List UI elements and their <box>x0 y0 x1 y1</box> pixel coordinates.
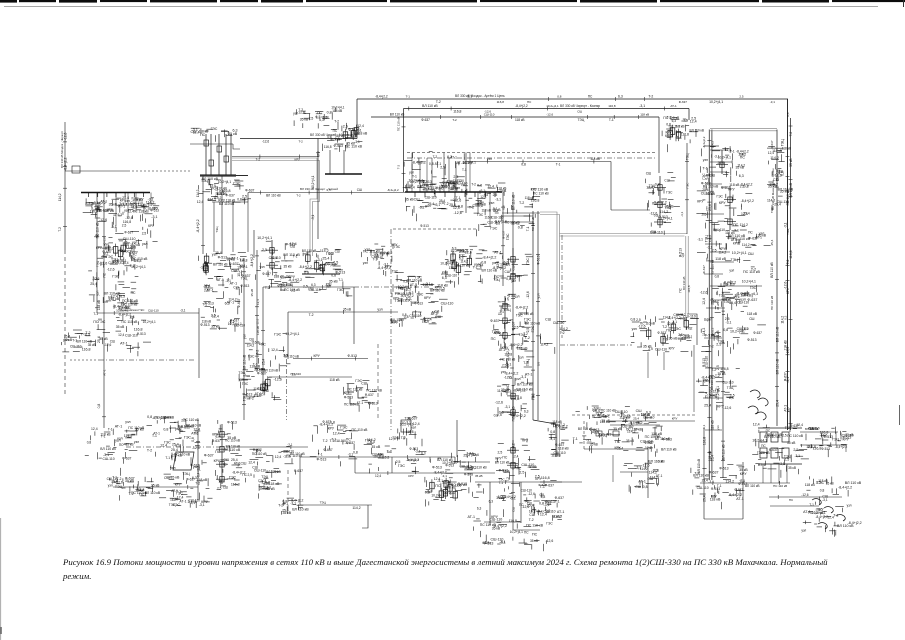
svg-text:116,8: 116,8 <box>82 347 91 351</box>
svg-text:АТ-1: АТ-1 <box>441 272 448 276</box>
svg-text:СШ-110: СШ-110 <box>673 313 685 317</box>
scan artifact: top edge black strip <box>0 0 905 3</box>
svg-text:ПС 110 кВ: ПС 110 кВ <box>773 484 787 488</box>
wire dashdot 158 <box>407 157 656 159</box>
svg-text:СШ-110: СШ-110 <box>453 179 465 183</box>
wire 377 <box>269 376 352 378</box>
svg-text:КРУ: КРУ <box>112 259 119 263</box>
svg-text:ГЭС: ГЭС <box>164 440 171 444</box>
svg-text:-12,6: -12,6 <box>256 318 260 325</box>
svg-text:-3,1: -3,1 <box>311 214 315 220</box>
svg-text:T-1: T-1 <box>809 503 814 507</box>
wire 421 <box>610 420 695 422</box>
wire F-513 dashed <box>393 228 477 230</box>
wire drop x97 <box>96 193 98 314</box>
svg-text:СШ-110: СШ-110 <box>521 488 533 492</box>
svg-text:116,8: 116,8 <box>134 327 143 331</box>
svg-text:-8,4+j2,2: -8,4+j2,2 <box>515 305 528 309</box>
svg-text:СШ: СШ <box>414 198 420 202</box>
svg-text:ГЭС: ГЭС <box>526 258 530 265</box>
svg-text:-3,1: -3,1 <box>287 443 293 447</box>
svg-text:Ф-637: Ф-637 <box>783 372 787 381</box>
svg-text:ВЛ 110 кВ: ВЛ 110 кВ <box>770 262 774 278</box>
svg-text:ТЭЦ: ТЭЦ <box>526 359 530 367</box>
svg-text:АТ-1: АТ-1 <box>103 369 107 376</box>
svg-text:Ф-637: Ф-637 <box>262 272 271 276</box>
svg-text:118 кВ: 118 кВ <box>716 331 720 341</box>
svg-text:-12,6: -12,6 <box>526 291 530 298</box>
svg-text:10,2+j4,1: 10,2+j4,1 <box>218 180 231 184</box>
svg-text:Ф-637: Ф-637 <box>323 448 332 452</box>
svg-text:-12,6: -12,6 <box>783 281 787 289</box>
svg-text:T-1: T-1 <box>152 434 157 438</box>
svg-text:T-1: T-1 <box>202 302 207 306</box>
wire drop artem4 <box>786 464 788 483</box>
svg-text:6,3: 6,3 <box>524 409 529 413</box>
svg-text:25,4: 25,4 <box>595 412 602 416</box>
svg-text:Ф-637: Ф-637 <box>734 488 743 492</box>
wire riser at x357 <box>356 99 358 139</box>
svg-text:ТЭЦ: ТЭЦ <box>600 434 607 438</box>
svg-text:ВЛ 330 кВ Моздок - Артём 1 Цеп: ВЛ 330 кВ Моздок - Артём 1 Цепь <box>455 94 505 98</box>
svg-text:118 кВ: 118 кВ <box>482 209 492 213</box>
svg-text:10,2+j4,1: 10,2+j4,1 <box>732 251 747 255</box>
svg-text:Ф-637: Ф-637 <box>702 265 706 274</box>
svg-text:СШ-110: СШ-110 <box>425 196 437 200</box>
Kizlyar boxes <box>646 318 688 346</box>
svg-text:ГЭС: ГЭС <box>686 182 690 189</box>
svg-text:ПС: ПС <box>242 473 247 477</box>
svg-text:T-2: T-2 <box>195 482 200 486</box>
svg-text:ПС 110 кВ: ПС 110 кВ <box>601 409 616 413</box>
svg-text:T-2: T-2 <box>323 439 328 443</box>
svg-text:ТЭЦ: ТЭЦ <box>115 485 123 489</box>
wire 425 <box>610 424 660 426</box>
cluster C labels labels <box>299 249 346 277</box>
svg-text:12,4: 12,4 <box>128 245 135 249</box>
svg-text:АТ-1: АТ-1 <box>115 425 123 429</box>
svg-text:СШ: СШ <box>241 462 247 466</box>
svg-text:10,2+j4,1: 10,2+j4,1 <box>237 263 241 276</box>
wire 497 <box>769 496 842 498</box>
feeder chain x272 <box>266 240 278 270</box>
svg-text:ГЭС: ГЭС <box>274 332 282 336</box>
svg-text:114,2: 114,2 <box>352 506 360 510</box>
svg-text:0,8: 0,8 <box>163 427 168 431</box>
svg-text:ПС 110 кВ: ПС 110 кВ <box>787 434 804 438</box>
svg-text:ПС: ПС <box>103 272 107 277</box>
wire 445 <box>800 444 846 446</box>
svg-text:6,3: 6,3 <box>409 291 414 295</box>
chain x513 d <box>507 440 519 470</box>
svg-text:12,4: 12,4 <box>275 455 282 459</box>
svg-text:ПС: ПС <box>532 533 538 537</box>
svg-text:0,8: 0,8 <box>454 188 459 192</box>
svg-text:ВЛ 110 кВ: ВЛ 110 кВ <box>845 481 862 485</box>
svg-text:СШ-110: СШ-110 <box>489 517 502 521</box>
svg-text:2,5: 2,5 <box>519 471 524 475</box>
svg-text:ТЭЦ: ТЭЦ <box>378 453 385 457</box>
inside right border labels labels <box>767 146 794 210</box>
svg-text:ПС: ПС <box>761 444 766 448</box>
svg-text:узл: узл <box>474 263 480 267</box>
svg-text:ПС: ПС <box>461 183 466 187</box>
wire 432 <box>800 431 838 433</box>
svg-text:116,8: 116,8 <box>136 488 144 492</box>
svg-text:СШ-110: СШ-110 <box>148 309 159 313</box>
svg-text:АТ-1: АТ-1 <box>783 405 787 412</box>
svg-text:ПС: ПС <box>314 260 319 264</box>
svg-text:ГЭС: ГЭС <box>506 384 510 391</box>
svg-text:118 кВ: 118 кВ <box>805 483 816 487</box>
svg-text:ВЛ 110 кВ: ВЛ 110 кВ <box>578 427 593 431</box>
svg-text:118 кВ: 118 кВ <box>711 420 715 430</box>
wire x257 <box>256 250 258 372</box>
svg-text:118 кВ: 118 кВ <box>332 109 343 113</box>
svg-text:-12,6: -12,6 <box>700 290 708 294</box>
svg-text:узл: узл <box>243 334 247 339</box>
svg-text:118 кВ: 118 кВ <box>329 378 340 382</box>
svg-text:2,5: 2,5 <box>498 451 503 455</box>
svg-text:СШ: СШ <box>512 507 516 512</box>
svg-text:T-1: T-1 <box>93 312 98 316</box>
svg-text:ТЭЦ: ТЭЦ <box>238 371 246 375</box>
svg-text:T-1: T-1 <box>284 502 289 506</box>
rung 398 <box>703 397 723 399</box>
svg-text:-12,6: -12,6 <box>200 266 208 270</box>
svg-text:-8,4+j2,2: -8,4+j2,2 <box>741 199 754 203</box>
svg-text:ТЭЦ: ТЭЦ <box>320 501 327 505</box>
svg-text:35 кВ: 35 кВ <box>346 142 355 146</box>
svg-text:-8,4+j2,2: -8,4+j2,2 <box>515 104 528 108</box>
wire dash 360a <box>70 359 99 361</box>
svg-text:6,3: 6,3 <box>421 452 426 456</box>
svg-text:T-1: T-1 <box>663 338 668 342</box>
svg-text:-3,1: -3,1 <box>180 309 186 313</box>
wire drop x470 <box>469 153 471 193</box>
svg-text:116,8: 116,8 <box>720 367 728 371</box>
wire dashed x288b <box>287 470 289 510</box>
svg-text:Ф-513: Ф-513 <box>420 224 429 228</box>
svg-text:СШ: СШ <box>647 477 653 481</box>
svg-text:-3,1: -3,1 <box>492 207 498 211</box>
svg-text:ГЭС: ГЭС <box>770 207 774 214</box>
svg-text:-3,1: -3,1 <box>151 215 157 219</box>
chain x222 <box>216 424 228 484</box>
wire drop x116 <box>115 193 117 227</box>
svg-text:СШ: СШ <box>280 288 285 292</box>
svg-text:118 кВ: 118 кВ <box>335 134 345 138</box>
svg-text:ПС: ПС <box>733 223 739 227</box>
svg-text:ВЛ 110 кВ: ВЛ 110 кВ <box>776 358 780 374</box>
svg-text:-8,4+j2,2: -8,4+j2,2 <box>835 445 848 449</box>
svg-text:-3,1: -3,1 <box>822 498 828 502</box>
svg-text:узл: узл <box>707 317 712 321</box>
svg-text:ГЭС: ГЭС <box>477 213 484 217</box>
chain x660 <box>654 176 666 228</box>
svg-text:35 кВ: 35 кВ <box>405 197 414 201</box>
wire drop x659 <box>658 117 660 173</box>
svg-text:10,2+j4,1: 10,2+j4,1 <box>143 320 156 324</box>
svg-text:ГЭС: ГЭС <box>506 233 510 240</box>
svg-text:10,2+j4,1: 10,2+j4,1 <box>658 216 673 220</box>
wire stub 300r <box>710 299 731 301</box>
chain x222 labels labels <box>212 420 246 490</box>
svg-text:T-1: T-1 <box>373 258 378 262</box>
svg-text:-3,1: -3,1 <box>770 100 776 104</box>
svg-text:25,4: 25,4 <box>705 392 709 398</box>
midleft band B labels <box>303 277 352 297</box>
wire grey 234 <box>560 233 688 235</box>
svg-text:узл: узл <box>537 293 541 298</box>
svg-text:-8,4+j2,2: -8,4+j2,2 <box>64 157 68 170</box>
svg-text:116,8: 116,8 <box>231 483 240 487</box>
svg-text:КРУ: КРУ <box>435 286 442 290</box>
rung 214 <box>703 213 724 215</box>
svg-text:116,8: 116,8 <box>485 216 493 220</box>
svg-text:35 кВ: 35 кВ <box>227 436 237 440</box>
svg-text:СШ-110: СШ-110 <box>521 463 534 467</box>
svg-text:114,2: 114,2 <box>320 249 329 253</box>
svg-text:узл: узл <box>425 204 431 208</box>
svg-text:ПС: ПС <box>666 328 672 332</box>
svg-text:Ф-513: Ф-513 <box>719 467 728 471</box>
svg-text:6,3: 6,3 <box>739 174 744 178</box>
wire right border outer <box>787 99 789 430</box>
svg-text:ГЭС: ГЭС <box>666 190 673 194</box>
svg-text:35 кВ: 35 кВ <box>788 466 796 470</box>
svg-text:2,5: 2,5 <box>716 365 720 370</box>
box on 171 <box>72 166 80 173</box>
svg-text:ГЭС: ГЭС <box>531 325 535 332</box>
svg-text:T-1: T-1 <box>730 149 735 153</box>
wire 213 <box>502 212 540 214</box>
rung 368 <box>705 367 724 369</box>
svg-text:114,2: 114,2 <box>725 480 734 484</box>
svg-text:узл: узл <box>96 291 100 296</box>
svg-text:Рисунок 16.9 Потоки мощности и: Рисунок 16.9 Потоки мощности и уровни на… <box>62 557 828 567</box>
svg-text:ПС 110 кВ: ПС 110 кВ <box>347 388 362 392</box>
svg-text:116,8: 116,8 <box>687 285 691 293</box>
svg-text:0,8: 0,8 <box>643 485 648 489</box>
chain x513 b <box>499 296 511 340</box>
rung 430 <box>705 429 722 431</box>
svg-text:узл: узл <box>377 308 382 312</box>
svg-text:25,4: 25,4 <box>506 294 510 300</box>
svg-text:T-2: T-2 <box>519 201 524 205</box>
wire x648 <box>647 449 649 498</box>
svg-text:0,8: 0,8 <box>458 205 463 209</box>
svg-text:2,5: 2,5 <box>702 212 707 216</box>
svg-text:ТЭЦ: ТЭЦ <box>780 139 784 147</box>
svg-text:118 кВ: 118 кВ <box>747 312 758 316</box>
left bottom rows labels <box>107 475 161 500</box>
svg-text:ТЭЦ: ТЭЦ <box>578 118 585 122</box>
svg-text:узл: узл <box>703 158 708 162</box>
right chain 3 labels labels <box>697 237 760 311</box>
svg-text:Ф-637: Ф-637 <box>709 471 719 475</box>
svg-text:T-1: T-1 <box>338 278 343 282</box>
midleft low labels2 labels <box>245 332 300 372</box>
svg-text:ГЭС: ГЭС <box>242 382 249 386</box>
wire 505 <box>300 504 372 506</box>
svg-text:25,4: 25,4 <box>231 458 238 462</box>
svg-text:КРУ: КРУ <box>843 438 850 442</box>
svg-text:6,3: 6,3 <box>477 507 482 511</box>
svg-text:ГЭС: ГЭС <box>674 327 682 331</box>
Chirkey labels labels <box>191 127 238 142</box>
svg-text:-3,1: -3,1 <box>504 262 510 266</box>
svg-text:T-2: T-2 <box>525 336 530 340</box>
svg-text:ГЭС: ГЭС <box>750 286 757 290</box>
svg-text:ТЭЦ: ТЭЦ <box>396 286 404 290</box>
svg-text:СШ: СШ <box>435 315 441 319</box>
rung 308 <box>706 307 725 309</box>
svg-text:T-2: T-2 <box>751 268 756 272</box>
svg-text:узл: узл <box>134 440 139 444</box>
svg-text:0,8: 0,8 <box>521 162 526 166</box>
midleft band C labels <box>361 243 403 276</box>
svg-text:T-2: T-2 <box>401 436 406 440</box>
wire 330kV grey tie A2 <box>232 161 320 257</box>
svg-text:ПС: ПС <box>636 421 642 425</box>
svg-text:ПС: ПС <box>491 337 497 341</box>
svg-text:ПС 110 кВ: ПС 110 кВ <box>223 448 240 452</box>
svg-text:12,4: 12,4 <box>290 242 297 246</box>
svg-text:118 кВ: 118 кВ <box>274 275 285 279</box>
svg-text:СШ-110: СШ-110 <box>640 440 653 444</box>
chain x513 a <box>507 248 519 282</box>
svg-text:ПС: ПС <box>524 531 529 535</box>
wire drop x128 <box>127 193 129 219</box>
Chiryurt labels below labels <box>405 196 501 222</box>
cluster E labels labels <box>440 246 497 287</box>
svg-text:Ф-513: Ф-513 <box>537 255 541 264</box>
svg-text:0,8: 0,8 <box>786 112 790 117</box>
izberbash labels labels <box>573 406 608 453</box>
scan artifact: left page edge <box>0 518 2 640</box>
svg-text:ПС 110 кВ: ПС 110 кВ <box>96 222 100 239</box>
chain labels a labels <box>492 250 533 283</box>
svg-text:КРУ: КРУ <box>385 264 392 268</box>
chain mid labels labels <box>499 342 534 386</box>
wire grey tie B <box>540 212 557 457</box>
svg-text:узл: узл <box>705 206 709 211</box>
svg-text:ВЛ 110 кВ: ВЛ 110 кВ <box>745 484 760 488</box>
wire jog <box>247 193 249 203</box>
svg-text:ВЛ 330 кВ: ВЛ 330 кВ <box>682 277 686 290</box>
svg-text:СШ: СШ <box>223 486 228 490</box>
svg-text:СШ-110: СШ-110 <box>441 301 454 305</box>
scan artifact: top-right corner tick <box>903 0 905 7</box>
wire 171 <box>65 170 128 172</box>
left labels 300 labels <box>103 294 138 310</box>
svg-text:2,5: 2,5 <box>740 184 745 188</box>
svg-text:Ф-637: Ф-637 <box>769 448 778 452</box>
svg-text:КРУ: КРУ <box>441 186 448 190</box>
svg-text:35 кВ: 35 кВ <box>250 289 254 296</box>
svg-text:Ф-637: Ф-637 <box>512 321 516 330</box>
wire Makhachkala 330 trunk <box>708 130 710 481</box>
svg-text:6,3: 6,3 <box>705 175 709 180</box>
wire stub 162r <box>710 161 732 163</box>
svg-text:114,2: 114,2 <box>196 189 200 197</box>
svg-text:35 кВ: 35 кВ <box>463 161 473 165</box>
svg-text:114,2: 114,2 <box>512 443 516 451</box>
svg-text:ПС: ПС <box>215 450 221 454</box>
svg-text:СШ: СШ <box>577 109 582 113</box>
svg-text:узл: узл <box>847 503 852 507</box>
wire to Chiryurt <box>248 192 405 194</box>
svg-text:узл: узл <box>115 439 121 443</box>
svg-text:АТ-1: АТ-1 <box>736 497 744 501</box>
svg-text:ПС 110 кВ: ПС 110 кВ <box>352 428 369 432</box>
svg-text:T-1: T-1 <box>609 118 614 122</box>
svg-text:СШ-110: СШ-110 <box>701 191 714 195</box>
cluster B labels labels <box>199 251 251 298</box>
wire drop x344 <box>343 150 345 174</box>
right col bottom labels labels <box>696 367 740 411</box>
svg-text:T-1: T-1 <box>462 168 467 172</box>
svg-text:118 кВ: 118 кВ <box>725 231 735 235</box>
svg-text:ПС: ПС <box>119 443 124 447</box>
svg-text:35 кВ: 35 кВ <box>284 265 292 269</box>
wire left vertical dashed <box>64 250 66 395</box>
svg-text:116,8: 116,8 <box>807 445 816 449</box>
svg-text:25,4: 25,4 <box>633 417 639 421</box>
left bottom rows2 labels <box>159 488 213 508</box>
svg-text:116,8: 116,8 <box>324 145 332 149</box>
svg-text:ПС: ПС <box>131 291 136 295</box>
labels 400 315 labels <box>390 310 443 327</box>
svg-text:T-2: T-2 <box>648 95 653 99</box>
svg-text:узл: узл <box>363 261 368 265</box>
svg-text:ГЭС: ГЭС <box>717 194 724 198</box>
svg-text:T-1: T-1 <box>526 226 530 231</box>
wire flow annotations <box>58 95 828 512</box>
svg-text:КРУ: КРУ <box>666 130 673 134</box>
svg-text:Ф-513: Ф-513 <box>445 464 454 468</box>
rung 244 <box>705 243 722 245</box>
wire 330kV line Mozdok top <box>357 98 788 100</box>
svg-text:T-1: T-1 <box>499 481 504 485</box>
wire drop x233 <box>232 202 234 252</box>
svg-text:-8,4+j2,2: -8,4+j2,2 <box>816 515 829 519</box>
svg-text:Ф-637: Ф-637 <box>212 439 221 443</box>
svg-text:12,4: 12,4 <box>212 315 219 319</box>
wire drop x427 <box>426 158 428 192</box>
wire x244 <box>243 258 245 420</box>
svg-text:T-2: T-2 <box>309 313 314 317</box>
svg-text:118 кВ: 118 кВ <box>423 283 434 287</box>
svg-text:118 кВ: 118 кВ <box>715 257 726 261</box>
svg-text:0,8: 0,8 <box>327 135 332 139</box>
right text row 232 labels <box>725 230 771 250</box>
wire jog to bottom <box>533 420 556 457</box>
svg-text:ПС 110 кВ: ПС 110 кВ <box>286 454 303 458</box>
wire 473 <box>355 472 495 474</box>
left bottom text labels <box>124 415 202 456</box>
wire drop x444 <box>443 153 445 193</box>
svg-text:КРУ: КРУ <box>391 243 398 247</box>
svg-text:-12,6: -12,6 <box>528 492 535 496</box>
hook 505 <box>362 505 368 528</box>
svg-text:Ф-637: Ф-637 <box>241 274 250 278</box>
svg-text:10,2+j4,1: 10,2+j4,1 <box>257 236 272 240</box>
svg-text:Ф-637: Ф-637 <box>237 298 241 307</box>
svg-text:25,4: 25,4 <box>171 448 178 452</box>
wire thin 156 <box>232 156 318 158</box>
